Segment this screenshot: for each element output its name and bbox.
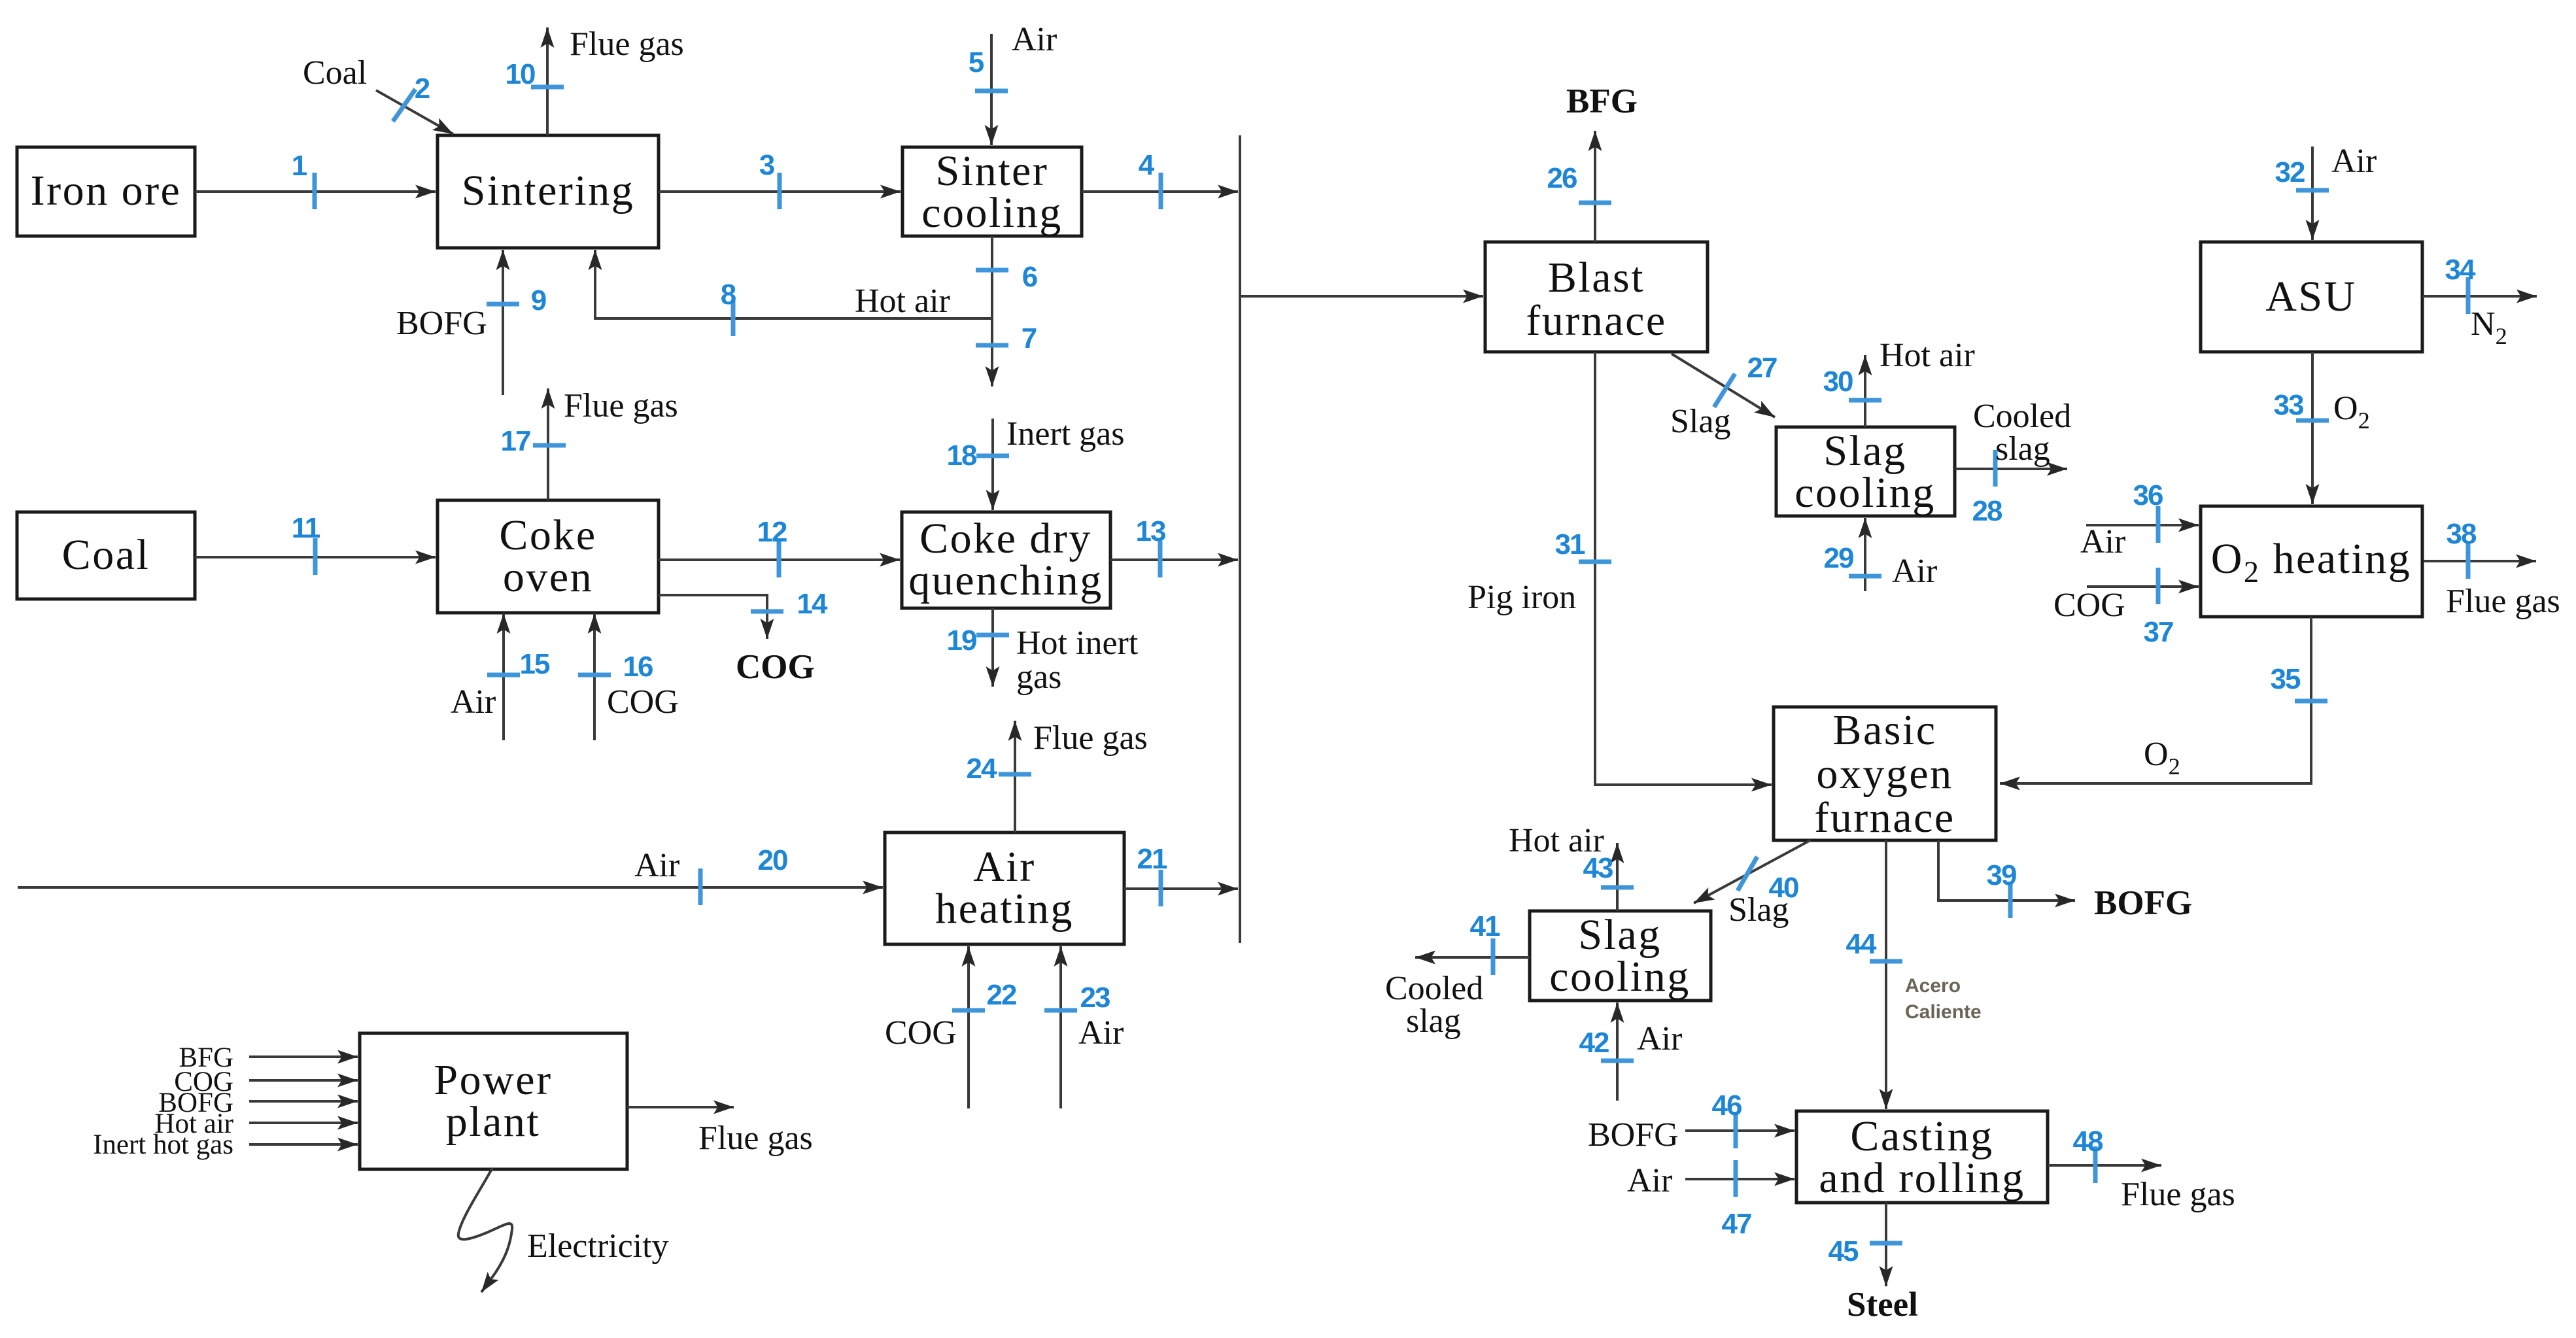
svg-text:COG: COG xyxy=(736,648,815,686)
node tick stream 7 xyxy=(976,343,1008,348)
svg-text:Inert hot gas: Inert hot gas xyxy=(93,1129,233,1160)
wire stream 2 Coal to Sintering xyxy=(376,90,453,134)
svg-text:44: 44 xyxy=(1846,928,1877,960)
wire Inert hot gas into power plant xyxy=(249,1143,358,1146)
node tick stream 14 xyxy=(751,609,783,614)
svg-text:17: 17 xyxy=(501,425,530,457)
wire stream 39 BOFG from BOF xyxy=(1938,840,2075,901)
label Iron ore xyxy=(31,167,182,214)
svg-text:Hot air: Hot air xyxy=(1509,822,1604,859)
node tick stream 16 xyxy=(578,673,611,678)
wire stream 8 hot air into Sintering xyxy=(595,250,992,318)
node tick stream 13 xyxy=(1158,541,1163,577)
svg-text:Air: Air xyxy=(1892,553,1937,590)
svg-text:oven: oven xyxy=(503,553,593,601)
svg-text:Blast: Blast xyxy=(1548,254,1645,301)
svg-text:2: 2 xyxy=(415,73,430,105)
svg-text:Sinter: Sinter xyxy=(936,147,1049,195)
node tick stream 40 xyxy=(1738,857,1757,891)
svg-text:Cooled: Cooled xyxy=(1973,398,2071,435)
svg-text:cooling: cooling xyxy=(921,189,1062,237)
label ASU xyxy=(2265,273,2357,320)
node tick stream 31 xyxy=(1579,560,1611,564)
svg-text:O2: O2 xyxy=(2144,736,2180,780)
svg-text:cooling: cooling xyxy=(1549,953,1690,1001)
svg-text:Basic: Basic xyxy=(1832,706,1936,754)
svg-text:COG: COG xyxy=(885,1014,957,1052)
svg-text:Slag: Slag xyxy=(1728,891,1789,929)
wire stream 17 flue gas from Coke oven xyxy=(547,388,549,500)
svg-text:14: 14 xyxy=(797,588,828,620)
wire stream 34 N2 from ASU xyxy=(2422,295,2537,298)
svg-text:Flue gas: Flue gas xyxy=(570,26,684,63)
node tick stream 19 xyxy=(976,633,1009,638)
wire stream 36 air into O2 heating xyxy=(2086,524,2199,526)
svg-text:gas: gas xyxy=(1016,659,1061,696)
node tick stream 28 xyxy=(1993,450,1998,487)
wire stream 38 flue gas from O2 heating xyxy=(2424,560,2536,562)
label Sintering xyxy=(462,167,635,214)
node tick stream 45 xyxy=(1870,1241,1902,1246)
svg-text:Slag: Slag xyxy=(1578,911,1661,959)
svg-text:30: 30 xyxy=(1823,366,1853,398)
svg-text:COG: COG xyxy=(2053,587,2125,624)
label Casting and rolling xyxy=(1819,1112,2025,1202)
svg-text:Coal: Coal xyxy=(62,531,150,579)
svg-text:Sintering: Sintering xyxy=(462,167,635,214)
svg-text:O2 heating: O2 heating xyxy=(2211,535,2412,589)
svg-text:24: 24 xyxy=(967,753,997,785)
svg-text:36: 36 xyxy=(2133,479,2163,511)
svg-text:21: 21 xyxy=(1137,843,1167,875)
svg-text:Hot inert: Hot inert xyxy=(1016,625,1139,662)
svg-text:Cooled: Cooled xyxy=(1385,970,1483,1007)
node tick stream 20 xyxy=(698,868,703,905)
svg-text:Flue gas: Flue gas xyxy=(698,1120,813,1157)
node tick stream 34 xyxy=(2466,277,2471,314)
svg-text:9: 9 xyxy=(531,284,546,317)
wire BFG into power plant xyxy=(249,1055,358,1058)
svg-text:6: 6 xyxy=(1022,261,1037,293)
wire collector bus vertical xyxy=(1239,135,1241,943)
node tick stream 6 xyxy=(976,268,1008,273)
wire stream 33 O2 from ASU xyxy=(2311,352,2314,504)
svg-text:Air: Air xyxy=(1627,1162,1672,1199)
node tick stream 35 xyxy=(2295,699,2327,704)
wire stream 3 Sintering to Sinter cooling xyxy=(659,190,901,193)
svg-text:O2: O2 xyxy=(2333,390,2370,434)
wire stream 40 slag to slag cooling BOF xyxy=(1694,840,1810,903)
svg-text:10: 10 xyxy=(506,58,535,90)
node tick stream 15 xyxy=(487,673,520,678)
svg-text:Slag: Slag xyxy=(1823,427,1906,475)
svg-text:27: 27 xyxy=(1747,352,1777,384)
svg-text:13: 13 xyxy=(1136,515,1165,547)
svg-text:41: 41 xyxy=(1470,910,1500,942)
node tick stream 12 xyxy=(777,541,781,577)
wire stream 45 steel product xyxy=(1885,1203,1887,1286)
wire stream 20 Air to Air heating xyxy=(18,886,883,889)
svg-text:Air: Air xyxy=(1078,1014,1124,1052)
box Air heating xyxy=(885,832,1124,944)
node tick stream 44 xyxy=(1870,959,1902,964)
wire stream 30 hot air from slag cooling BF xyxy=(1864,355,1866,427)
svg-text:Slag: Slag xyxy=(1670,403,1730,440)
node tick stream 32 xyxy=(2296,188,2329,193)
svg-text:12: 12 xyxy=(757,516,787,548)
svg-text:Air: Air xyxy=(973,843,1035,891)
node tick stream 47 xyxy=(1734,1160,1738,1197)
node tick stream 1 xyxy=(313,173,317,209)
svg-text:plant: plant xyxy=(446,1098,540,1146)
wire stream 13 CDQ to bus xyxy=(1110,558,1238,561)
wire stream 27 slag to slag cooling xyxy=(1672,354,1775,417)
box ASU xyxy=(2201,242,2422,352)
svg-text:42: 42 xyxy=(1579,1027,1609,1059)
wire stream 9 BOFG into Sintering xyxy=(502,250,504,395)
wire stream 35 O2 to BOF xyxy=(2000,617,2311,783)
svg-text:37: 37 xyxy=(2144,616,2173,648)
svg-text:Air: Air xyxy=(2080,523,2125,560)
svg-text:1: 1 xyxy=(292,150,307,182)
wire stream 6 7 sinter cooling exhaust down xyxy=(991,236,993,386)
wire stream 5 Air into Sinter cooling xyxy=(990,34,993,145)
svg-text:7: 7 xyxy=(1022,322,1037,354)
label Coke oven xyxy=(499,511,596,601)
svg-text:Air: Air xyxy=(1637,1020,1682,1057)
node tick stream 22 xyxy=(952,1008,985,1013)
wire stream 23 Air into Air heating xyxy=(1059,946,1062,1108)
node tick stream 18 xyxy=(976,454,1009,458)
node tick stream 42 xyxy=(1601,1059,1634,1063)
node tick stream 17 xyxy=(533,443,566,448)
svg-text:26: 26 xyxy=(1547,162,1577,194)
wire stream 11 Coal to Coke oven xyxy=(195,556,436,558)
svg-text:cooling: cooling xyxy=(1795,469,1935,517)
label Basic oxygen furnace xyxy=(1814,706,1955,842)
svg-text:33: 33 xyxy=(2274,389,2303,421)
svg-text:quenching: quenching xyxy=(908,557,1103,604)
svg-text:BFG: BFG xyxy=(1566,82,1638,120)
box Sinter cooling xyxy=(902,147,1082,236)
svg-text:Coal: Coal xyxy=(303,54,367,92)
svg-text:19: 19 xyxy=(947,625,976,657)
svg-text:Pig iron: Pig iron xyxy=(1468,579,1576,616)
svg-text:Air: Air xyxy=(2331,143,2377,180)
svg-text:Air: Air xyxy=(451,683,496,721)
wire stream 14 COG from Coke oven xyxy=(659,595,767,639)
svg-text:8: 8 xyxy=(721,279,736,311)
node tick stream 27 xyxy=(1714,374,1735,407)
svg-text:46: 46 xyxy=(1712,1089,1742,1122)
wire BOFG into power plant xyxy=(249,1100,358,1103)
svg-text:Air: Air xyxy=(1012,21,1057,58)
node tick stream 43 xyxy=(1601,885,1634,890)
svg-text:15: 15 xyxy=(520,648,550,680)
svg-text:Flue gas: Flue gas xyxy=(1033,719,1148,757)
svg-text:Air: Air xyxy=(634,847,679,884)
wire stream 47 air into casting xyxy=(1685,1178,1795,1180)
svg-text:BOFG: BOFG xyxy=(1588,1116,1679,1154)
wire electricity from power plant xyxy=(458,1168,512,1292)
box Sintering xyxy=(438,135,659,248)
svg-text:BOFG: BOFG xyxy=(396,305,487,342)
node tick stream 48 xyxy=(2093,1146,2098,1183)
node tick stream 23 xyxy=(1044,1008,1077,1013)
svg-text:Acero: Acero xyxy=(1905,975,1961,997)
svg-text:furnace: furnace xyxy=(1814,794,1955,842)
svg-text:Flue gas: Flue gas xyxy=(2446,583,2560,620)
node tick stream 33 xyxy=(2296,419,2329,423)
wire stream 46 BOFG into casting xyxy=(1685,1129,1795,1132)
box Casting and rolling xyxy=(1796,1111,2048,1203)
svg-text:Coke dry: Coke dry xyxy=(919,515,1092,562)
wire stream 43 hot air from slag cooling BOF xyxy=(1616,843,1619,911)
wire stream 24 flue gas from Air heating xyxy=(1014,721,1016,832)
svg-text:Power: Power xyxy=(434,1056,552,1104)
svg-text:Steel: Steel xyxy=(1847,1286,1918,1324)
label Blast furnace xyxy=(1526,254,1666,345)
wire stream 48 flue gas from casting xyxy=(2048,1164,2161,1167)
node tick stream 36 xyxy=(2156,506,2161,543)
wire bus to Blast furnace xyxy=(1240,295,1483,298)
svg-text:Inert gas: Inert gas xyxy=(1006,415,1124,453)
node tick stream 10 xyxy=(531,85,564,90)
wire stream 16 COG into Coke oven xyxy=(593,613,596,740)
label Air heating xyxy=(935,843,1074,933)
wire stream 42 air into slag cooling BOF xyxy=(1616,1003,1619,1101)
svg-text:Flue gas: Flue gas xyxy=(564,387,678,424)
node tick stream 5 xyxy=(975,89,1008,94)
node tick stream 24 xyxy=(999,772,1031,777)
label Coal xyxy=(62,531,150,579)
box Coal xyxy=(17,512,195,599)
wire stream 31 pig iron to BOF xyxy=(1595,352,1772,785)
svg-text:28: 28 xyxy=(1972,495,2002,527)
svg-text:ASU: ASU xyxy=(2265,273,2357,320)
node tick stream 29 xyxy=(1849,574,1881,579)
svg-text:4: 4 xyxy=(1139,149,1155,181)
box Iron ore xyxy=(17,147,195,236)
wire stream 41 cooled slag BOF xyxy=(1415,956,1530,959)
svg-text:N2: N2 xyxy=(2471,305,2507,349)
svg-text:COG: COG xyxy=(607,683,679,721)
wire stream 10 flue gas from Sintering xyxy=(546,27,549,135)
label Slag cooling BF xyxy=(1795,427,1935,517)
svg-text:Flue gas: Flue gas xyxy=(2121,1176,2235,1213)
node tick stream 39 xyxy=(2008,882,2013,918)
node tick stream 2 xyxy=(393,89,415,121)
svg-text:heating: heating xyxy=(935,885,1074,933)
box Basic oxygen furnace xyxy=(1774,707,1996,840)
wire stream 15 Air into Coke oven xyxy=(502,613,505,740)
svg-text:35: 35 xyxy=(2271,663,2301,695)
box Slag cooling BF xyxy=(1776,427,1955,516)
node tick stream 21 xyxy=(1159,870,1163,906)
node tick stream 30 xyxy=(1849,398,1881,403)
node tick stream 9 xyxy=(487,302,519,307)
svg-text:oxygen: oxygen xyxy=(1816,750,1953,798)
wire stream 37 COG into O2 heating xyxy=(2087,585,2199,588)
wire flue gas from power plant xyxy=(627,1106,734,1108)
svg-text:29: 29 xyxy=(1824,542,1853,574)
svg-text:Caliente: Caliente xyxy=(1905,1001,1982,1023)
node tick stream 41 xyxy=(1491,938,1496,975)
svg-text:16: 16 xyxy=(623,651,653,683)
svg-text:47: 47 xyxy=(1722,1208,1751,1240)
box Coke dry quenching xyxy=(902,512,1110,608)
svg-text:Casting: Casting xyxy=(1850,1112,1993,1160)
box Blast furnace xyxy=(1485,242,1708,352)
node tick stream 38 xyxy=(2466,542,2471,579)
wire stream 18 inert gas into CDQ xyxy=(991,419,994,510)
wire stream 21 Air heating to bus xyxy=(1124,887,1238,890)
wire stream 29 air into slag cooling BF xyxy=(1864,518,1866,591)
svg-text:3: 3 xyxy=(759,149,774,181)
wire stream 44 hot steel to casting xyxy=(1885,840,1887,1109)
svg-text:20: 20 xyxy=(758,844,787,876)
svg-text:Iron ore: Iron ore xyxy=(31,167,182,214)
svg-text:Electricity: Electricity xyxy=(527,1227,669,1265)
svg-text:48: 48 xyxy=(2073,1125,2103,1158)
box Power plant xyxy=(360,1033,627,1169)
node tick stream 46 xyxy=(1734,1112,1738,1148)
wire COG into power plant xyxy=(249,1079,358,1082)
wire stream 1 Iron ore to Sintering xyxy=(195,190,436,193)
label Sinter cooling xyxy=(921,147,1062,237)
label Coke dry quenching xyxy=(908,515,1103,604)
svg-text:slag: slag xyxy=(1995,430,2050,468)
wire stream 22 COG into Air heating xyxy=(967,946,970,1108)
svg-text:18: 18 xyxy=(947,439,977,472)
svg-text:furnace: furnace xyxy=(1526,297,1666,345)
label Power plant xyxy=(434,1056,552,1146)
svg-text:Coke: Coke xyxy=(499,511,596,559)
label Slag cooling BOF xyxy=(1549,911,1690,1001)
svg-text:5: 5 xyxy=(969,46,984,78)
box O2 heating xyxy=(2201,506,2422,617)
box Coke oven xyxy=(438,500,659,613)
wire Hot air into power plant xyxy=(249,1122,358,1124)
svg-text:Hot air: Hot air xyxy=(1880,337,1975,374)
node tick stream 37 xyxy=(2156,568,2161,604)
wire stream 32 air into ASU xyxy=(2311,146,2314,240)
node tick stream 26 xyxy=(1579,201,1611,205)
svg-text:39: 39 xyxy=(1987,859,2016,891)
svg-text:BOFG: BOFG xyxy=(2094,884,2192,922)
svg-text:slag: slag xyxy=(1406,1003,1461,1040)
svg-text:32: 32 xyxy=(2275,156,2305,188)
wire stream 28 cooled slag BF xyxy=(1955,468,2067,470)
svg-text:Hot air: Hot air xyxy=(855,283,950,320)
box Slag cooling BOF xyxy=(1530,911,1711,1001)
wire stream 12 Coke oven to CDQ xyxy=(659,558,900,561)
svg-text:45: 45 xyxy=(1829,1235,1859,1267)
svg-text:38: 38 xyxy=(2447,518,2477,550)
svg-text:23: 23 xyxy=(1080,982,1110,1014)
node tick stream 3 xyxy=(778,173,782,209)
wire stream 4 Sinter cooling to bus xyxy=(1082,190,1238,193)
svg-text:11: 11 xyxy=(292,512,320,544)
node tick stream 11 xyxy=(313,538,318,575)
svg-text:22: 22 xyxy=(987,979,1016,1011)
svg-text:31: 31 xyxy=(1555,528,1585,560)
svg-text:34: 34 xyxy=(2445,254,2476,286)
wire stream 19 hot inert gas from CDQ xyxy=(991,608,994,687)
node tick stream 8 xyxy=(731,300,736,336)
svg-text:and rolling: and rolling xyxy=(1819,1154,2025,1202)
node tick stream 4 xyxy=(1159,173,1163,209)
wire stream 26 BFG from Blast furnace xyxy=(1594,131,1596,242)
